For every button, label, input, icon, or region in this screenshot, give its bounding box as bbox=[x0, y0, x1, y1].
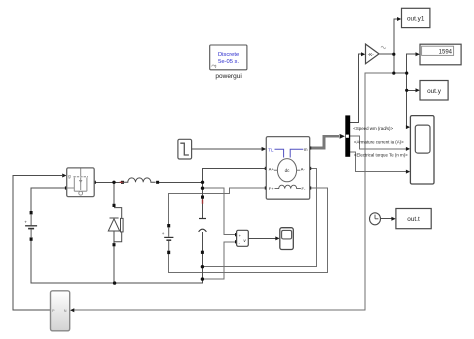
svg-text:F+: F+ bbox=[269, 186, 274, 191]
svg-text:<Electrical torque Te (n m)>: <Electrical torque Te (n m)> bbox=[354, 153, 408, 158]
svg-text:out.y: out.y bbox=[427, 88, 442, 95]
svg-text:F-: F- bbox=[302, 186, 306, 191]
svg-text:-K-: -K- bbox=[368, 52, 375, 57]
svg-text:powergui: powergui bbox=[215, 73, 241, 80]
svg-text:A-: A- bbox=[301, 166, 306, 171]
svg-text:+: + bbox=[24, 219, 27, 224]
svg-text:A+: A+ bbox=[269, 166, 275, 171]
svg-text:<Armature current ia (A)>: <Armature current ia (A)> bbox=[354, 139, 404, 144]
svg-text:dc: dc bbox=[285, 168, 291, 173]
svg-text:TL: TL bbox=[268, 147, 274, 152]
svg-text:1594: 1594 bbox=[439, 50, 453, 56]
svg-text:out.y1: out.y1 bbox=[407, 15, 425, 22]
svg-text:N: N bbox=[64, 309, 67, 313]
svg-text:Discrete: Discrete bbox=[218, 52, 239, 58]
svg-text:m: m bbox=[304, 147, 308, 152]
svg-text:out.t: out.t bbox=[407, 216, 420, 223]
svg-text:5e-05 s.: 5e-05 s. bbox=[218, 59, 239, 65]
svg-text:<Speed wm (rad/s)>: <Speed wm (rad/s)> bbox=[353, 126, 393, 131]
svg-text:+: + bbox=[162, 231, 165, 236]
